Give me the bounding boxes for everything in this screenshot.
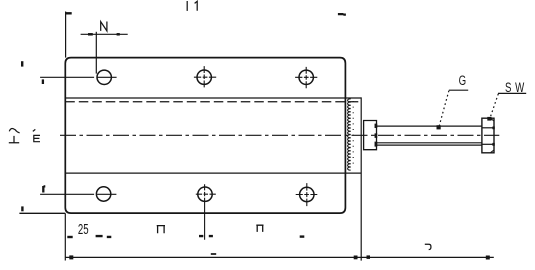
hole 4 centerline — [40, 193, 116, 195]
hatch dotted column — [352, 101, 354, 167]
plate outline — [65, 58, 345, 214]
chain dimension tick pair at hole 1 — [96, 235, 112, 238]
hole 2 crosshair horizontal — [194, 76, 216, 78]
hex nut facet line upper — [482, 127, 494, 129]
dimension N left arrow — [88, 33, 93, 36]
threaded stud top line — [377, 125, 482, 127]
rotated label H2 (left outer) — [9, 128, 20, 142]
label SW dotted leader — [490, 94, 499, 119]
chain dimension tick pair at hole 5 — [199, 235, 213, 237]
svg-text:G: G — [459, 72, 467, 88]
threaded stud bottom line outer — [377, 142, 482, 144]
hole 5 crosshair horizontal — [196, 193, 216, 195]
hole 6 crosshair vertical — [306, 183, 308, 206]
label SW leader dot on nut — [487, 117, 491, 121]
label N — [101, 22, 107, 31]
chain dimension tick near left edge — [67, 236, 72, 238]
hole 2 crosshair vertical — [203, 66, 205, 87]
interior solid line upper — [65, 97, 361, 99]
hole 4 bottom-left — [96, 187, 110, 201]
label SW underline — [498, 92, 526, 94]
rotated label m1 (left inner) — [33, 129, 40, 142]
dimension N right arrow — [117, 33, 120, 36]
hatched end strip right edge / extension line — [360, 97, 362, 260]
hole 3 crosshair horizontal — [295, 76, 317, 78]
bottom dimension square tick left — [69, 255, 73, 259]
overall bottom dimension line — [65, 256, 494, 258]
hole 1 top-left — [97, 70, 111, 84]
svg-text:25: 25 — [78, 221, 89, 238]
hole 3 crosshair vertical — [305, 67, 307, 89]
hex nut body — [482, 118, 494, 153]
left inner dimension bottom arrow tick — [43, 186, 45, 193]
dimension N line — [81, 33, 128, 35]
dimension l1 left extension line — [65, 12, 67, 58]
bottom dimension square tick mid-right — [367, 255, 371, 259]
hole 5 crosshair vertical and extension to bottom dimension — [204, 184, 206, 240]
label G dotted leader — [439, 91, 449, 126]
left extension line below plate — [64, 213, 66, 260]
bottom dimension square tick right — [486, 256, 490, 260]
threaded stud bottom line inner — [377, 144, 482, 146]
hex nut chamfer corners — [491, 118, 494, 152]
hole 1 centerline — [40, 76, 117, 78]
hole 5 bottom-middle — [198, 187, 212, 201]
left outer dimension bottom arrow tick — [21, 206, 23, 211]
hatch zigzag column — [348, 99, 351, 170]
chain dimension tick at hole 6 column — [300, 235, 305, 237]
label m second — [256, 225, 263, 232]
dimension l1 left arrow tick — [66, 12, 72, 14]
label l1 — [187, 1, 197, 11]
bottom dimension square tick mid-left — [354, 256, 358, 260]
hole 6 crosshair horizontal — [296, 194, 318, 196]
faded label dash on left bottom span — [211, 253, 216, 255]
bottom edge extension to the left — [19, 212, 65, 214]
hole 6 bottom-right — [300, 187, 314, 201]
collar hex facet blobs on right edge — [375, 124, 378, 147]
left inner dimension top arrow tick — [42, 79, 44, 84]
collar at stud base — [364, 121, 377, 150]
hole 2 top-middle — [197, 70, 211, 84]
interior solid line lower — [65, 172, 361, 174]
centerline axis dash-dot — [60, 134, 499, 136]
hex nut facet line lower — [482, 143, 494, 145]
label G underline — [449, 89, 468, 91]
left outer dimension top arrow tick — [21, 61, 23, 66]
dimension l1 right arrow tick — [338, 13, 346, 16]
hole 3 top-right — [299, 70, 313, 84]
label G leader dot on stud — [437, 125, 441, 129]
dimension N extension line to hole 1 — [95, 32, 97, 74]
interior dashed line — [65, 101, 361, 103]
label m first — [157, 226, 165, 234]
faded label b on right bottom span — [425, 244, 431, 249]
hex nut facet blobs on right edge — [492, 127, 494, 146]
